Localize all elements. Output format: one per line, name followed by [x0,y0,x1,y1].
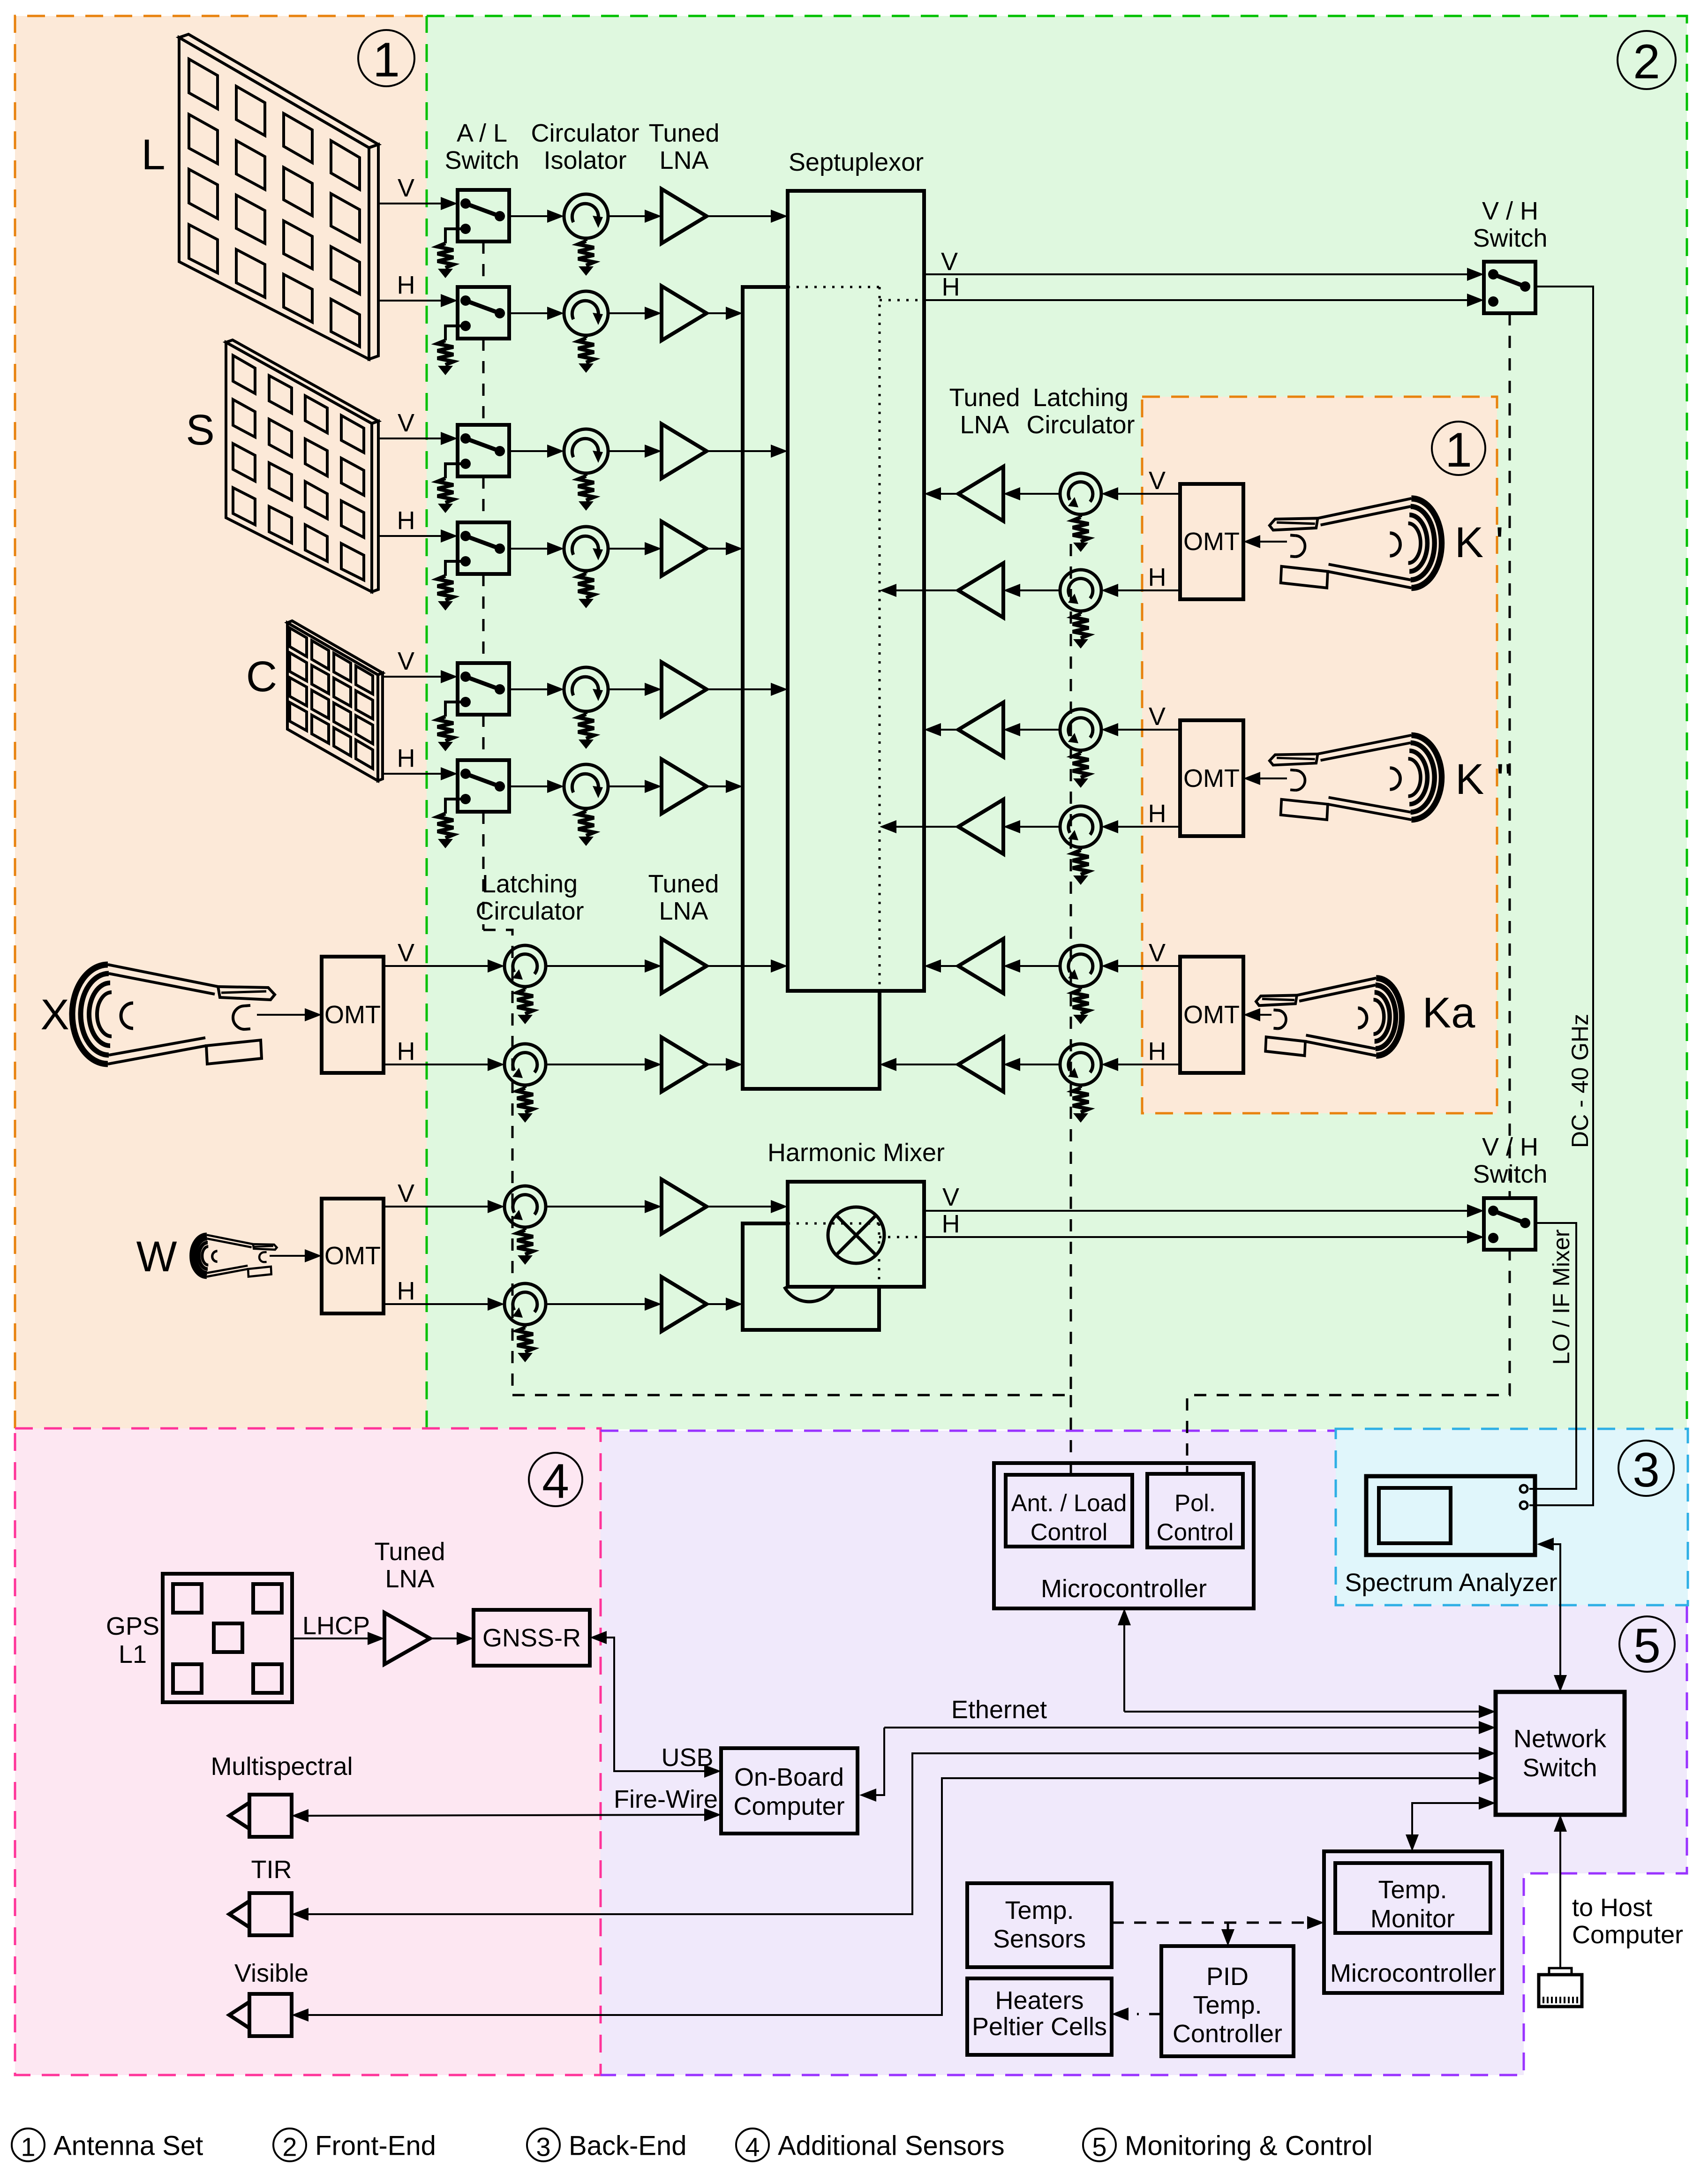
wire X horn to OMT [257,1014,305,1016]
wire Ka-V circulator to LNA [1020,965,1060,967]
region 2 border (green dashed) [427,16,1687,1429]
wire Ka-H OMT to latching circulator [1118,1064,1180,1065]
svg-text:Circulator: Circulator [531,119,639,147]
wire C-H switch to isolator [509,785,547,787]
spectrum analyzer [1366,1476,1535,1555]
svg-text:H: H [397,744,415,772]
harmonic mixer H mixer circle (partial, hidden) [784,1287,834,1302]
svg-text:Control: Control [1157,1519,1234,1546]
region number 4 [529,1453,582,1506]
wire GNSS-R USB link to on-board computer [607,1638,704,1771]
svg-text:Circulator: Circulator [1026,411,1135,439]
wire S-H antenna to A/L switch [378,535,441,537]
wire W-V circulator to LNA [546,1206,645,1208]
svg-text:3: 3 [536,2132,550,2162]
wire microcontroller U1 to network switch [1124,1711,1479,1713]
latching circulator Kp-V [1060,473,1101,514]
svg-text:H: H [1148,563,1166,591]
tuned LNA L-H [662,286,707,340]
wire S-H switch to isolator [509,548,547,550]
region number 1 [358,30,414,86]
wire S-H LNA to septuplexor [707,548,726,550]
GNSS-R box [474,1610,590,1666]
Heaters Peltier Cells box [967,1978,1112,2055]
svg-text:Isolator: Isolator [543,146,626,174]
region 1 border (orange dashed, left+top) [15,16,427,1428]
svg-text:H: H [397,1277,415,1305]
svg-text:Septuplexor: Septuplexor [789,148,924,176]
wire X-V OMT to latching circulator [384,965,488,967]
svg-text:Microcontroller: Microcontroller [1041,1575,1207,1603]
latching circulator X-H [504,1044,546,1085]
A/L switch L-H [458,287,509,339]
wire C-V antenna to A/L switch [383,676,441,678]
wire C-V isolator to LNA [608,688,645,690]
tuned LNA Ka-V (reversed) [958,939,1003,993]
Ant./Load control bus (dashed, horizontal) [512,1394,1071,1396]
tuned LNA W-V [662,1179,707,1234]
svg-text:Sensors: Sensors [993,1925,1086,1953]
svg-text:V: V [398,409,414,437]
wire L-V isolator to LNA [608,215,645,217]
svg-text:Tuned: Tuned [374,1538,445,1566]
svg-text:5: 5 [1633,1619,1661,1673]
svg-text:C: C [246,653,277,701]
svg-text:1: 1 [373,33,400,87]
region 5 border (purple dashed) [601,1431,1687,2075]
svg-text:4: 4 [542,1454,569,1509]
svg-text:Back-End: Back-End [569,2131,686,2161]
svg-text:Switch: Switch [1473,224,1547,252]
svg-text:OMT: OMT [324,1242,381,1270]
latching circulator Ka-H [1060,1044,1101,1085]
svg-text:PID: PID [1206,1962,1249,1991]
tuned LNA L-V [662,189,707,243]
wire L-V antenna to A/L switch [378,203,441,204]
svg-text:LNA: LNA [659,146,708,174]
svg-text:GNSS-R: GNSS-R [482,1624,581,1652]
wire Kp-V LNA to septuplexor [941,493,958,495]
wire Kpp-H LNA to septuplexor [896,826,958,828]
host computer connector [1539,1975,1582,2007]
svg-text:On-Board: On-Board [734,1763,844,1791]
wire L-H switch to isolator [509,312,547,314]
svg-text:LHCP: LHCP [302,1612,370,1640]
svg-text:Latching: Latching [1033,384,1129,412]
wire X-H LNA to mixer/septuplexor [707,1064,726,1065]
region 3 border (cyan dashed) [1336,1429,1688,1605]
latching circulator Kpp-H [1060,806,1101,847]
wire L-H LNA to septuplexor [707,312,726,314]
svg-text:OMT: OMT [1183,1001,1240,1029]
wire S-V isolator to LNA [608,450,645,452]
A/L switch L-V [458,190,509,242]
wire C-H isolator to LNA [608,785,645,787]
svg-text:Computer: Computer [733,1792,844,1820]
svg-text:Monitor: Monitor [1370,1905,1455,1933]
network switch [1496,1692,1625,1815]
wire Kp-H LNA to septuplexor [896,589,958,591]
svg-text:1: 1 [21,2132,35,2162]
svg-text:Peltier Cells: Peltier Cells [972,2013,1107,2041]
OMT W [322,1199,384,1313]
svg-text:Monitoring & Control: Monitoring & Control [1125,2131,1373,2161]
svg-text:2: 2 [282,2132,297,2162]
wire Kp-V circulator to LNA [1020,493,1060,495]
legend 5 Monitoring &amp; Control [1083,2128,1116,2161]
svg-text:Circulator: Circulator [475,897,584,925]
wire Multispectral Fire-Wire link [308,1815,704,1816]
svg-text:L1: L1 [119,1640,147,1668]
svg-text:TIR: TIR [251,1856,292,1884]
wire spectrum analyzer to network switch [1554,1544,1560,1675]
svg-text:Switch: Switch [1522,1754,1597,1782]
svg-text:Temp.: Temp. [1005,1896,1074,1924]
tuned LNA Kp-V (reversed) [958,467,1003,521]
harmonic mixer V-section box [788,1182,924,1287]
wire S-V antenna to A/L switch [378,438,441,439]
A/L switch C-V [458,663,509,715]
circulator isolator C-V [564,667,608,711]
svg-text:LO / IF Mixer: LO / IF Mixer [1548,1230,1574,1365]
svg-text:2: 2 [1633,35,1660,89]
svg-text:DC - 40 GHz: DC - 40 GHz [1567,1014,1593,1148]
region 5 Monitoring & Control background (purple) [601,1431,1687,2075]
svg-text:Tuned: Tuned [949,384,1020,412]
svg-text:V: V [398,647,414,675]
wire X-V circulator to LNA [546,965,645,967]
svg-text:Switch: Switch [444,146,519,174]
wire Kpp-V LNA to septuplexor [941,729,958,731]
svg-text:H: H [397,1037,415,1065]
dashed wire temp sensors to temp monitor [1112,1922,1307,1924]
svg-text:Harmonic Mixer: Harmonic Mixer [767,1139,945,1167]
svg-text:A / L: A / L [457,119,507,147]
svg-text:V: V [398,1179,414,1208]
wire Ka horn to OMT [1260,1014,1272,1016]
svg-text:Ant. / Load: Ant. / Load [1011,1490,1127,1517]
on-board computer [721,1748,858,1834]
wire W-H LNA to mixer/septuplexor [707,1303,726,1305]
svg-text:to Host: to Host [1572,1894,1652,1922]
wire Ka-H LNA to septuplexor [896,1064,958,1065]
wire W horn to OMT [270,1255,305,1257]
svg-text:Control: Control [1031,1519,1107,1546]
svg-text:Microcontroller: Microcontroller [1330,1959,1496,1987]
svg-text:L: L [141,131,165,179]
wire Kp-H circulator to LNA [1020,589,1060,591]
svg-text:Front-End: Front-End [315,2131,436,2161]
septuplexor H-section hidden edges (dotted) [788,286,880,288]
tuned LNA S-V [662,424,707,478]
legend 2 Front-End [273,2128,306,2161]
svg-text:H: H [1148,1037,1166,1065]
svg-text:Controller: Controller [1173,2020,1282,2048]
svg-text:K ': K ' [1455,519,1504,566]
harmonic mixer H-section box [743,1223,879,1330]
wire L-H isolator to LNA [608,312,645,314]
region 2 Front-End background (green) [427,16,1687,1429]
svg-text:V: V [1149,702,1166,731]
A/L switch S-V [458,425,509,476]
region 1 Antenna Set background (orange) [15,16,427,1428]
wire LNA to GNSS-R [430,1638,457,1639]
GPS L1 patch antenna [163,1574,292,1702]
circulator isolator L-H [564,291,608,335]
tuned LNA C-H [662,759,707,814]
latching circulator control bus (dashed) [1070,544,1072,1395]
svg-text:Tuned: Tuned [648,119,719,147]
Pol. Control box [1147,1474,1243,1547]
wire S-H isolator to LNA [608,548,645,550]
horn antenna K' [1270,498,1442,588]
wire W-V LNA to mixer/septuplexor [707,1206,771,1208]
tuned LNA W-H [662,1277,707,1331]
svg-text:V: V [398,939,414,967]
OMT K'' [1180,720,1243,836]
microcontroller U1 box [994,1463,1254,1608]
svg-text:H: H [942,273,960,301]
wire S-V switch to isolator [509,450,547,452]
horn antenna Ka [1256,978,1402,1056]
svg-text:H: H [397,271,415,299]
svg-text:Tuned: Tuned [648,870,719,898]
circulator isolator S-V [564,429,608,473]
tuned LNA X-V [662,939,707,993]
harmonic mixer H-section hidden edges (dotted) [788,1223,879,1225]
V/H switch control bus (dashed) [1509,313,1511,1198]
region number 5 [1619,1616,1675,1672]
svg-text:W: W [136,1233,177,1281]
svg-text:V: V [1149,939,1166,967]
svg-text:OMT: OMT [324,1001,381,1029]
antenna array S [226,340,378,423]
wire GPS to LNA [292,1638,368,1639]
dashed wire branch to PID controller [1227,1923,1229,1931]
wire C-H LNA to septuplexor [707,785,726,787]
svg-text:LNA: LNA [385,1565,434,1593]
latching circulator Ka-V [1060,945,1101,987]
tuned LNA C-V [662,662,707,717]
svg-text:V: V [942,1183,959,1211]
wire X-H circulator to LNA [546,1064,645,1065]
svg-text:5: 5 [1092,2132,1106,2162]
circulator isolator C-H [564,764,608,808]
region 3 Back-End background (cyan) [1336,1429,1688,1605]
wire L-H antenna to A/L switch [378,300,441,302]
svg-text:USB: USB [661,1743,713,1772]
Temp. Monitor microcontroller box [1324,1851,1502,1993]
horn antenna W [192,1235,277,1276]
region 1 right Antenna Set background (orange, K horns) [1142,397,1497,1113]
region 4 Additional Sensors background (pink) [15,1428,601,2075]
wire Ka-V LNA to septuplexor [941,965,958,967]
wire Kp-H OMT to latching circulator [1118,589,1180,591]
tuned LNA GPS [384,1613,430,1664]
region 4 border (pink dashed) [15,1428,601,2075]
legend 1 Antenna Set [12,2128,45,2161]
antenna array C [287,621,383,675]
dashed wire PID controller to heaters [1137,2013,1161,2015]
V/H switch (top) [1484,262,1535,313]
harmonic mixer V mixer symbol [828,1207,884,1263]
region 1 right border (orange dashed) [1142,397,1497,1113]
horn antenna X [72,965,275,1064]
svg-text:Additional Sensors: Additional Sensors [778,2131,1005,2161]
wire C-V switch to isolator [509,688,547,690]
svg-text:Ethernet: Ethernet [951,1696,1047,1724]
svg-text:Network: Network [1513,1725,1607,1753]
circulator isolator S-H [564,527,608,571]
tuned LNA X-H [662,1037,707,1092]
svg-text:V: V [398,174,414,202]
svg-text:Pol.: Pol. [1174,1490,1216,1517]
svg-text:H: H [1148,800,1166,828]
wire Ka-V OMT to latching circulator [1118,965,1180,967]
Ant. / Load Control box [1006,1475,1132,1547]
svg-text:OMT: OMT [1183,528,1240,556]
antenna array L [179,34,378,148]
septuplexor V-section box [788,191,924,991]
latching circulator Kp-H [1060,570,1101,611]
OMT Ka [1180,957,1243,1073]
svg-text:LNA: LNA [960,411,1009,439]
svg-text:Visible: Visible [234,1959,308,1987]
tuned LNA Kpp-V (reversed) [958,702,1003,757]
Temp. Sensors box [967,1883,1112,1967]
svg-text:Spectrum Analyzer: Spectrum Analyzer [1345,1569,1557,1597]
legend 4 Additional Sensors [736,2128,769,2161]
tuned LNA Ka-H (reversed) [958,1037,1003,1092]
svg-text:LNA: LNA [659,897,708,925]
svg-text:K '': K '' [1455,755,1512,803]
wire C-V LNA to septuplexor [707,688,771,690]
svg-text:X: X [40,991,69,1039]
wire Ethernet computer to network switch [884,1727,1479,1728]
tuned LNA Kp-H (reversed) [958,563,1003,618]
V/H switch (lower) [1484,1198,1535,1250]
svg-text:Heaters: Heaters [995,1986,1083,2015]
wire Ka-H circulator to LNA [1020,1064,1060,1065]
svg-text:Antenna Set: Antenna Set [53,2131,203,2161]
svg-text:H: H [397,506,415,535]
wire X-V LNA to mixer/septuplexor [707,965,771,967]
septuplexor H-section box [743,287,880,1089]
legend 3 Back-End [527,2128,560,2161]
svg-text:OMT: OMT [1183,764,1240,792]
wire L-V LNA to septuplexor [707,215,771,217]
svg-text:Computer: Computer [1572,1921,1683,1949]
svg-text:Ka: Ka [1422,989,1475,1037]
svg-text:Multispectral: Multispectral [211,1752,353,1781]
wire X-H OMT to latching circulator [384,1064,488,1065]
wire temp monitor to network switch [1412,1803,1479,1834]
latching circulator Kpp-V [1060,709,1101,750]
OMT K' [1180,484,1243,599]
svg-text:H: H [942,1210,960,1238]
wire Kp-V OMT to latching circulator [1118,493,1180,495]
svg-text:V: V [941,248,958,276]
wire Kpp-V circulator to LNA [1020,729,1060,731]
A/L switch S-H [458,522,509,574]
wire TIR to network switch [308,1753,1479,1914]
wire Visible to network switch [308,1778,1479,2015]
svg-text:V: V [1149,467,1166,495]
wire S-V LNA to septuplexor [707,450,771,452]
svg-text:S: S [186,406,214,454]
wire network switch to host computer [1559,1832,1561,1968]
wire Kpp-H OMT to latching circulator [1118,826,1180,828]
tuned LNA Kpp-H (reversed) [958,800,1003,854]
latching circulator X-V [504,945,546,987]
wire lower V/H switch output (LO / IF) [1529,1223,1576,1489]
wire C-H antenna to A/L switch [383,773,441,775]
wire top V/H switch output (DC - 40 GHz) [1529,287,1593,1505]
region number 3 [1618,1441,1674,1496]
wire Kpp-V OMT to latching circulator [1118,729,1180,731]
svg-text:Latching: Latching [482,870,578,898]
wire Kpp-H circulator to LNA [1020,826,1060,828]
tuned LNA S-H [662,521,707,576]
svg-text:Fire-Wire: Fire-Wire [614,1785,718,1813]
wire L-V switch to isolator [509,215,547,217]
latching circulator W-V [504,1186,546,1227]
circulator isolator L-V [564,194,608,238]
svg-text:GPS: GPS [106,1612,159,1640]
svg-text:V / H: V / H [1482,197,1538,225]
PID Temp. Controller box [1161,1946,1294,2056]
A/L switch control bus (dashed) [482,242,485,287]
svg-text:4: 4 [745,2132,760,2162]
region number 1 [1432,422,1485,475]
wire W-H circulator to LNA [546,1303,645,1305]
A/L switch C-H [458,760,509,812]
OMT X [322,957,384,1073]
latching circulator W-H [504,1283,546,1325]
region number 2 [1618,31,1676,89]
horn antenna K'' [1270,735,1442,820]
svg-text:Temp.: Temp. [1193,1991,1262,2019]
svg-text:1: 1 [1445,423,1472,477]
wire K'' horn to OMT [1260,777,1287,779]
svg-text:3: 3 [1633,1443,1660,1497]
svg-text:Temp.: Temp. [1378,1876,1447,1904]
wire K' horn to OMT [1260,541,1287,543]
wire W-H OMT to latching circulator [384,1303,488,1305]
wire W-V OMT to latching circulator [384,1206,488,1208]
